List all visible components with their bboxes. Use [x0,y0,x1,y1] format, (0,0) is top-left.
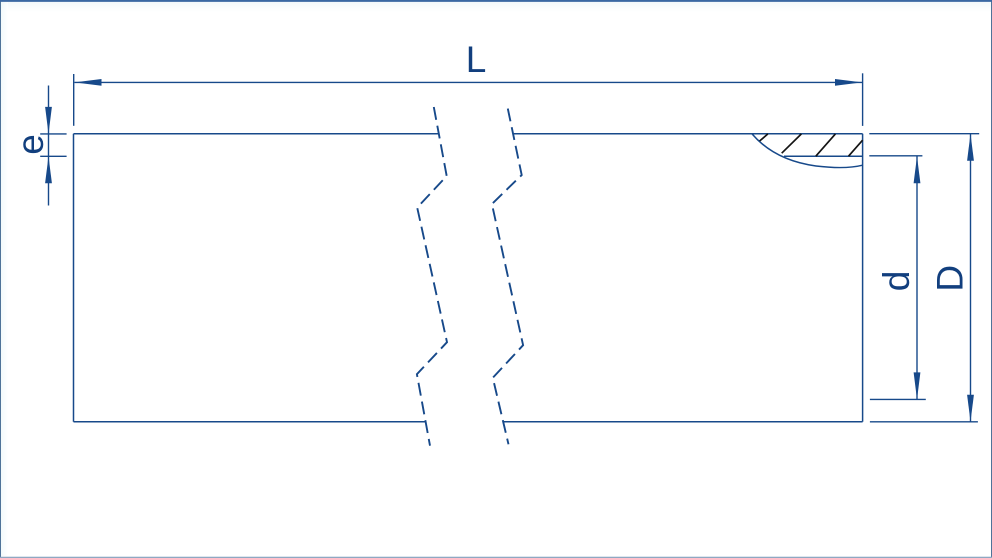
L arrow right [835,79,862,86]
L dimension line [75,81,863,83]
dimension e [40,86,66,206]
svg-text:L: L [466,39,487,80]
L extension line left [73,74,75,126]
tube left edge [73,134,75,422]
D arrow down [967,395,974,422]
D extension top [869,133,979,135]
dimension L [74,73,863,126]
svg-text:D: D [930,265,971,292]
e dimension line [48,86,50,206]
d tick bottom [870,398,926,400]
d dimension line [916,156,918,399]
tube bottom edge right segment [503,421,862,423]
e arrow up [45,156,52,183]
tube top edge left segment [74,133,439,135]
break line left (zigzag dashed) [417,107,523,446]
tube right edge [862,134,864,422]
page border bottom [0,556,992,558]
svg-text:d: d [876,271,917,292]
L arrow left [75,79,102,86]
page border right [991,1,992,558]
d arrow down [914,372,921,399]
D arrow up [967,134,974,161]
break line right (zigzag dashed) [492,109,523,445]
L extension line right [862,73,864,126]
tube bottom edge left segment [74,421,426,423]
d extension top [869,155,922,157]
break-out arc [752,134,863,168]
tube top edge right segment [513,133,863,135]
page border [0,1,2,558]
top border accent [0,0,992,2]
inner wall line at break-out [784,155,863,157]
e tick top [40,133,66,135]
D extension bottom [870,421,978,423]
e arrow down [45,107,52,134]
svg-text:e: e [10,134,51,155]
dimension D [869,134,979,422]
e tick bottom [40,155,66,157]
d arrow up [914,156,921,183]
dimension d [869,156,926,400]
D dimension line [970,134,972,422]
hatch lines in break-out [760,134,863,156]
